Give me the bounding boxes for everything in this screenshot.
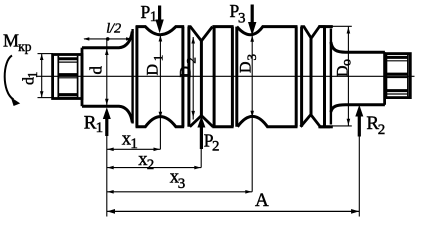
right spline end block [386, 54, 410, 98]
label D3 (rotated) [238, 54, 260, 73]
svg-text:1: 1 [96, 120, 104, 136]
pulley 1 bottom rim and crown groove [136, 117, 185, 127]
left journal (diameter d section) [82, 32, 132, 123]
pulley rim left face [135, 26, 138, 127]
label x1 [122, 129, 138, 152]
pulley 2 left face [213, 27, 216, 127]
svg-text:D: D [145, 64, 162, 76]
label x3 [170, 168, 186, 193]
svg-text:о: о [340, 59, 355, 66]
label R1 [84, 112, 103, 135]
collar rim bottom short edge [318, 125, 332, 128]
svg-text:D: D [238, 61, 255, 73]
svg-text:2: 2 [184, 57, 199, 64]
V-groove 2 bottom chamfer [301, 115, 331, 127]
dimension D1 line with arrows [159, 35, 163, 150]
collar right face [323, 27, 326, 127]
svg-text:l/2: l/2 [106, 21, 121, 36]
label R2 [366, 113, 385, 138]
svg-text:D: D [335, 65, 352, 77]
slot faces between pulley 2 and pulley 3 [231, 27, 234, 127]
pulley hub left face [131, 29, 133, 124]
force P1 label [141, 2, 158, 25]
pulley 2 bottom rim [212, 125, 233, 128]
label D2 (rotated) [178, 57, 199, 77]
force P2 arrow [197, 116, 205, 168]
V-groove 1 bottom chamfer [190, 116, 213, 127]
V-groove 1 slot [200, 41, 203, 116]
dimension l/2 [83, 37, 132, 41]
right spline bars [386, 57, 408, 94]
force P1 arrow [155, 6, 163, 34]
force P3 arrow [248, 5, 256, 36]
svg-text:3: 3 [238, 11, 246, 27]
label D1 (rotated) [145, 55, 166, 76]
pulley 3 top rim and crown groove [237, 27, 298, 35]
dimension A [107, 209, 359, 214]
label P2 [204, 130, 220, 154]
left spline end block [53, 55, 82, 99]
V-groove 1 top chamfer [188, 27, 213, 41]
V-groove 2 slot [310, 38, 313, 114]
force P3 label [230, 1, 246, 27]
pulley 3 bottom rim and crown groove [238, 116, 298, 126]
svg-text:2: 2 [378, 122, 386, 138]
svg-text:3: 3 [244, 54, 259, 61]
torque label M_kr [3, 31, 32, 54]
label x2 [138, 150, 154, 173]
V-groove 2 top chamfer [301, 27, 326, 39]
dimension x3 [107, 190, 252, 194]
svg-text:d: d [87, 66, 106, 75]
reaction R2 arrow [355, 105, 363, 217]
svg-text:кр: кр [18, 39, 32, 54]
torque arc arrow [5, 56, 21, 107]
pulley 1 right face [181, 27, 184, 127]
hub right face [330, 29, 332, 125]
label d1 (rotated) [21, 72, 41, 85]
label Do (rotated) [335, 59, 355, 77]
dimension d1 line with arrows [40, 54, 44, 97]
svg-text:D: D [178, 66, 195, 78]
right journal with entry fillets [331, 42, 385, 112]
svg-text:1: 1 [25, 72, 40, 79]
dimension Do extension lines [332, 25, 352, 27]
reaction R1 arrow [103, 107, 111, 216]
svg-text:1: 1 [151, 55, 166, 62]
dimension Do line with arrows [347, 27, 351, 126]
dimension d line with arrows (on R1 axis) [105, 39, 109, 106]
centerline [36, 75, 415, 77]
pulley 2 top rim [212, 25, 233, 28]
gap ring face between pulley 1 and V-groove [187, 27, 190, 127]
svg-text:2: 2 [147, 157, 155, 173]
dimension d1 extension lines [38, 53, 54, 55]
pulley 1 top rim and crown groove [136, 27, 185, 35]
svg-text:2: 2 [212, 139, 220, 155]
svg-text:3: 3 [178, 176, 186, 192]
left spline bars [58, 59, 77, 98]
svg-text:A: A [255, 190, 269, 211]
dimension x2 [107, 166, 201, 170]
dimension x1 [107, 148, 161, 152]
svg-text:М: М [3, 31, 19, 51]
dimension D2 line with arrows [191, 37, 195, 120]
dimension D3 line with arrows [250, 35, 254, 192]
pulley 3 right face [295, 27, 298, 127]
gap ring face between pulley 3 and V-groove 2 [300, 27, 303, 127]
svg-text:1: 1 [130, 136, 138, 152]
svg-text:1: 1 [150, 9, 158, 25]
collar rim top short edge [318, 25, 332, 28]
